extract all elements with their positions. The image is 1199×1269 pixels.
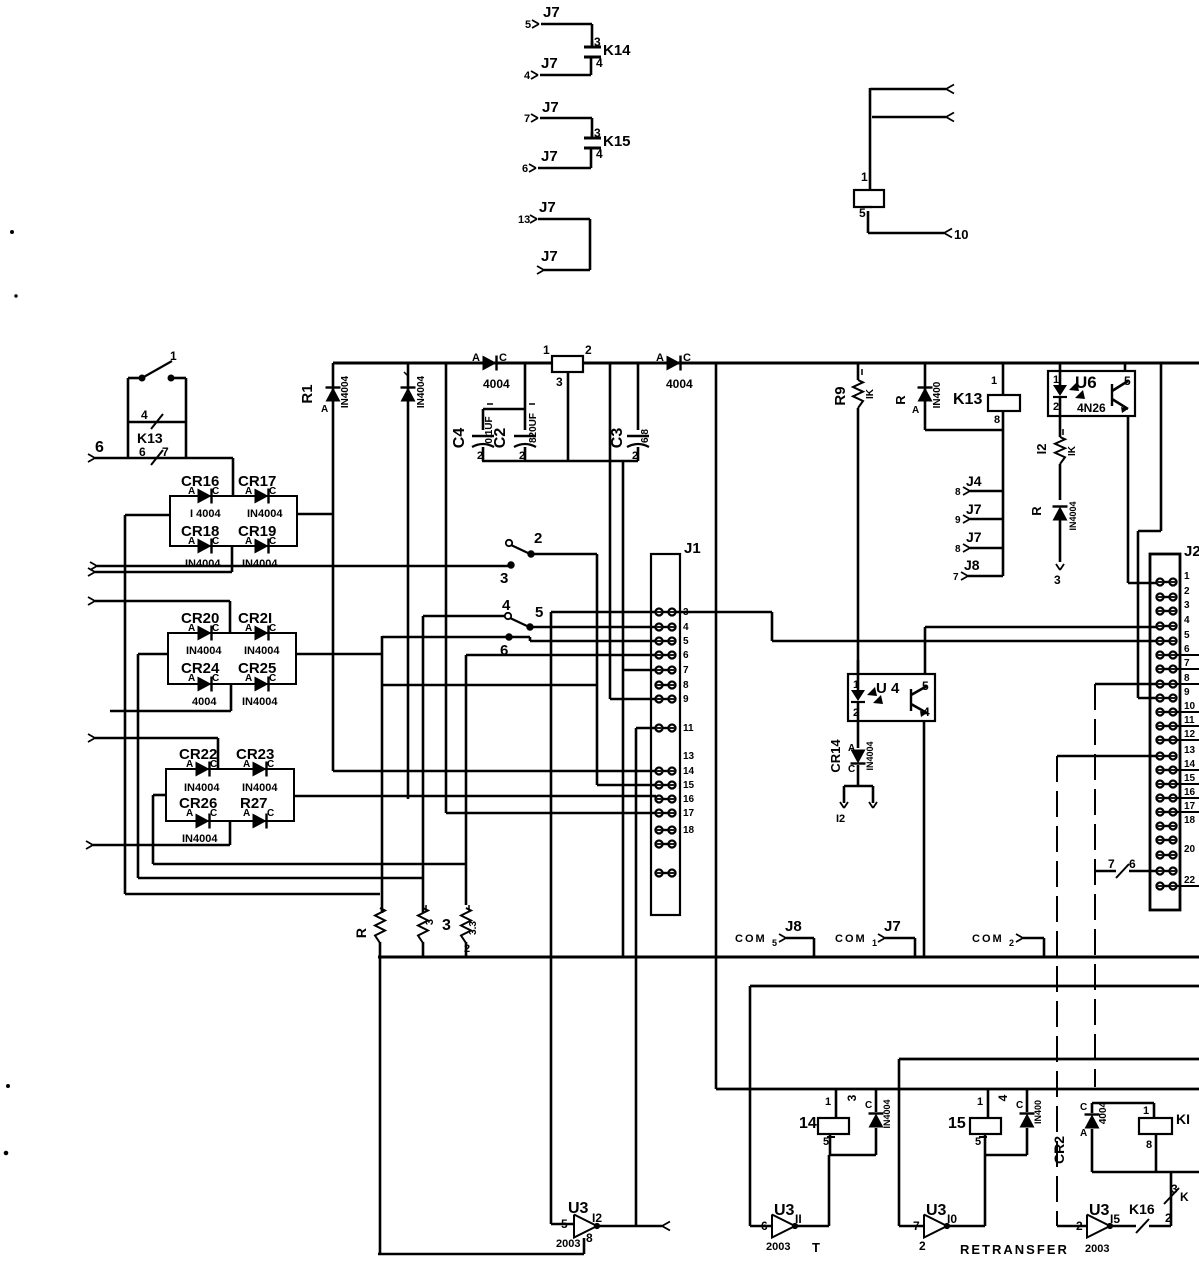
svg-text:K15: K15 [603,133,631,150]
svg-text:18: 18 [683,825,695,836]
svg-text:14: 14 [799,1115,817,1132]
diode CR20 [181,610,222,657]
svg-text:4: 4 [141,408,148,422]
svg-text:R: R [353,928,369,938]
svg-text:7: 7 [683,665,689,676]
svg-text:K13: K13 [953,391,982,408]
svg-text:1: 1 [1143,1105,1149,1117]
wire to J1 pin 4 [533,626,656,629]
node 3 [500,562,514,587]
svg-text:2003: 2003 [766,1241,790,1253]
relay K15 contact pins 3,4 [584,126,631,168]
diode CR22 [179,746,220,794]
pin 3 arrow [1054,564,1064,587]
svg-text:7: 7 [953,572,959,583]
svg-text:A: A [186,808,193,819]
svg-text:C2: C2 [492,428,509,449]
svg-text:J7: J7 [884,918,901,935]
svg-text:9: 9 [683,694,689,705]
svg-text:A: A [243,759,250,770]
svg-text:IN4004: IN4004 [242,696,278,708]
wire (mid output) [296,653,382,656]
svg-text:C: C [865,1100,872,1111]
svg-text:15: 15 [683,780,695,791]
svg-text:CR2I: CR2I [238,610,272,627]
svg-text:2: 2 [585,343,592,357]
svg-text:3: 3 [500,570,508,587]
svg-text:C: C [683,352,691,364]
wire (mid tap left) [125,515,170,894]
svg-text:4004: 4004 [666,377,693,391]
svg-text:1: 1 [825,1096,831,1108]
driver U3 pins 2/15 [1057,1202,1120,1255]
connector J4 pin 8 [955,473,1003,498]
svg-text:3: 3 [556,375,563,389]
svg-text:IN4004: IN4004 [184,782,220,794]
diode CR23 [236,746,278,794]
svg-text:C: C [210,759,217,770]
diode CR26 [179,795,218,845]
diode CR (4004) on bus [472,352,510,391]
wire (long vertical to relay bus) [715,363,718,1089]
svg-text:5: 5 [823,1136,829,1148]
label RETRANSFER [960,1242,1069,1257]
svg-text:IN4004: IN4004 [882,1099,892,1128]
bus 4 (relay supply) [716,1088,1199,1091]
resistor 3 [418,905,451,957]
svg-text:7: 7 [913,1219,920,1233]
svg-text:13: 13 [683,751,695,762]
relay coil (top right) [854,190,884,233]
svg-text:16: 16 [683,794,695,805]
svg-text:J7: J7 [541,55,558,72]
relay coil 15 [948,1089,1027,1155]
svg-text:16: 16 [1184,787,1196,798]
wire [232,458,235,496]
pin arrows [946,85,954,122]
wire switch5 vertical [551,612,656,1224]
svg-text:IN4004: IN4004 [244,645,280,657]
svg-text:K14: K14 [603,42,631,59]
diode R27 [240,795,274,829]
svg-text:6: 6 [500,642,508,659]
svg-text:R: R [1029,506,1044,516]
svg-text:I 4004: I 4004 [190,508,221,520]
relay coil K13 [953,363,1020,576]
svg-text:8: 8 [955,487,961,498]
svg-text:A: A [243,808,250,819]
svg-text:2: 2 [1165,1211,1172,1225]
svg-text:IN4004: IN4004 [340,375,351,408]
svg-text:3: 3 [594,126,601,140]
svg-text:20: 20 [1184,844,1196,855]
wire [88,734,218,769]
svg-text:2: 2 [632,450,638,462]
svg-text:3.3: 3.3 [468,921,479,935]
relay coil K17 [1092,1103,1190,1172]
wire [1092,1171,1199,1174]
connector J7 COM1 [835,918,915,957]
svg-text:J7: J7 [542,99,559,116]
svg-text:IN400: IN400 [1033,1100,1043,1124]
wire [153,863,466,866]
wire to J1 pin 15 [597,685,656,785]
svg-text:4: 4 [596,56,603,70]
connector J7 pin 7 [524,99,559,125]
svg-text:2: 2 [1009,938,1014,948]
connector J7 pin 5 [525,4,560,31]
svg-text:6: 6 [95,439,104,456]
svg-text:18: 18 [1184,815,1196,826]
wire (U6 emitter to J2 pin1) [1128,415,1156,583]
svg-text:A: A [912,405,919,416]
svg-text:2: 2 [919,1239,926,1253]
svg-text:C: C [212,536,219,547]
svg-text:A: A [245,673,252,684]
svg-text:A: A [188,536,195,547]
svg-text:IN4004: IN4004 [185,558,221,570]
svg-text:A: A [245,623,252,634]
svg-text:C: C [269,673,276,684]
connector J7 pin 6 [522,148,558,175]
svg-text:4: 4 [683,622,689,633]
svg-text:KI: KI [1176,1111,1190,1127]
svg-text:J7: J7 [541,148,558,165]
contact 7-6 to J2 pin 21 [1095,857,1156,878]
resistor R [353,908,385,1254]
svg-text:C: C [499,352,507,364]
diode R1 (1N4004) [299,363,351,771]
capacitor C2 820UF [492,404,539,462]
relay K14 contact pins 3,4 [584,35,631,75]
svg-text:IN4004: IN4004 [186,645,222,657]
svg-text:2: 2 [1184,586,1190,597]
connector J8 COM5 [735,918,814,957]
svg-text:IN4004: IN4004 [242,782,278,794]
relay K13 contacts [128,378,186,459]
switch K13 pin 1 [139,349,177,381]
svg-text:A: A [245,486,252,497]
svg-text:6: 6 [761,1219,768,1233]
svg-text:C3: C3 [609,428,626,449]
svg-text:J4: J4 [966,473,982,489]
svg-text:C: C [212,673,219,684]
svg-text:15: 15 [948,1115,966,1132]
wire (dashed) from J2 pin 8 [1095,684,1156,1087]
capacitor C4 0.1UF [451,404,495,462]
svg-text:7: 7 [1184,658,1190,669]
diode CR2 4004 [1051,1101,1109,1172]
svg-text:4N26: 4N26 [1077,401,1106,415]
svg-text:5: 5 [922,679,929,693]
diode CR18 [181,523,221,570]
svg-text:1: 1 [872,938,877,948]
svg-text:3: 3 [424,919,436,925]
diode CR19 [238,523,278,570]
svg-text:5: 5 [1184,630,1190,641]
svg-text:2003: 2003 [556,1238,580,1250]
svg-text:A: A [472,352,480,364]
svg-text:5: 5 [975,1136,981,1148]
svg-text:IN4004: IN4004 [242,558,278,570]
svg-text:3: 3 [1184,600,1190,611]
svg-text:9: 9 [955,515,961,526]
diode CR (4004) on bus 2 [656,352,693,391]
node 6 [500,634,512,659]
svg-text:4004: 4004 [192,696,217,708]
svg-text:3: 3 [1171,1182,1178,1196]
svg-text:IN4004: IN4004 [247,508,283,520]
wire [110,684,231,711]
svg-text:6.8: 6.8 [640,429,651,443]
wire pin6 with contact [88,439,233,465]
power bus (top) [333,362,1199,365]
svg-text:1: 1 [977,1096,983,1108]
svg-text:8: 8 [1146,1139,1152,1151]
svg-text:17: 17 [1184,801,1196,812]
wire J1 pin 11 down [636,728,656,1226]
resistor R9 1K [832,363,876,674]
connector J2 [1150,543,1199,910]
svg-text:4: 4 [1184,615,1190,626]
svg-text:I2: I2 [1034,444,1049,455]
capacitor C3 6.8 [609,363,651,462]
svg-text:U3: U3 [1089,1202,1110,1219]
svg-text:IN4004: IN4004 [865,741,875,770]
svg-text:IN400: IN400 [932,381,943,408]
svg-text:A: A [186,759,193,770]
svg-text:4004: 4004 [483,377,510,391]
wire (U4 pin5 to J2 pin4) [925,627,1156,674]
svg-text:6: 6 [522,163,528,175]
diode (1N4004) #2 [401,363,428,799]
wire [88,546,232,576]
svg-text:J7: J7 [543,4,560,21]
svg-text:J7: J7 [541,248,558,265]
driver U3 pins 5/12 [551,1200,602,1250]
diode CR16 [181,473,221,520]
svg-text:1: 1 [170,349,177,363]
svg-text:C: C [212,623,219,634]
wire (U3 pin8 return) [378,1238,584,1254]
resistor 3.3 [461,905,479,957]
svg-text:C: C [269,536,276,547]
svg-text:3: 3 [594,35,601,49]
svg-text:C: C [267,759,274,770]
diode group CR16-CR19 box [170,496,297,546]
wire [138,877,423,880]
voltage regulator VR1 [543,343,592,461]
wire [381,636,384,913]
svg-text:2: 2 [1053,401,1059,413]
svg-text:A: A [188,623,195,634]
wire [86,821,230,849]
relay contact K16 [1110,1201,1171,1233]
svg-text:5: 5 [772,938,777,948]
diode at relay 15 (1N400) [996,1089,1043,1155]
svg-text:11: 11 [683,723,694,734]
svg-text:C: C [269,623,276,634]
svg-text:3: 3 [845,1094,859,1101]
svg-text:4: 4 [596,147,603,161]
svg-text:IK: IK [1067,445,1078,456]
svg-text:6: 6 [683,650,689,661]
wire (U4 pin4 down) [923,721,926,957]
svg-text:5: 5 [683,636,689,647]
svg-text:J2: J2 [1184,543,1199,560]
wire (mid output to J1 pin16) [294,795,656,798]
diode (1N400) at K13 coil [893,363,943,430]
pin 1 label [861,170,868,184]
svg-text:C: C [848,764,855,775]
svg-text:U3: U3 [568,1200,589,1217]
svg-text:J1: J1 [684,540,701,557]
wire [540,74,591,77]
svg-text:J7: J7 [966,501,982,517]
wire switch4 to resistor chain [423,616,505,913]
wire [795,1155,829,1226]
svg-text:820UF: 820UF [528,413,539,443]
svg-text:J8: J8 [785,918,802,935]
svg-text:12: 12 [1184,729,1196,740]
optocoupler U4 [848,660,935,721]
wire (mid tap left) [138,654,168,878]
diode group CR22-R27 box [166,769,294,821]
bus (COM) [378,956,1199,959]
wire [540,118,592,136]
connector J7 pin 9 [955,501,1003,526]
diode CR24 [181,660,220,708]
svg-text:A: A [656,352,664,364]
wire with arrow [90,562,508,570]
svg-text:C: C [267,808,274,819]
svg-text:2: 2 [1076,1219,1083,1233]
svg-text:13: 13 [518,214,530,226]
svg-text:3: 3 [1054,573,1061,587]
svg-text:8: 8 [586,1231,593,1245]
diode CR21 [238,610,280,657]
svg-text:A: A [245,536,252,547]
svg-text:4: 4 [923,705,930,719]
diode at relay 14 (1N4004) [845,1089,892,1155]
svg-text:2003: 2003 [1085,1243,1109,1255]
wire (dashed) to U3 input [1056,756,1058,1226]
svg-text:R1: R1 [299,384,316,403]
svg-text:K: K [1180,1190,1189,1204]
wire [88,597,230,633]
wire [538,219,590,270]
svg-text:1: 1 [991,375,997,387]
wire [534,554,597,685]
svg-text:17: 17 [683,808,695,819]
diode CR25 [238,660,278,708]
svg-text:J7: J7 [539,199,556,216]
svg-text:U3: U3 [774,1202,795,1219]
resistor R12 1K [1034,416,1078,464]
diode CR14 1N4004 [828,721,875,786]
svg-text:COM: COM [835,933,867,945]
wire [870,88,946,190]
wire to pin 10 [868,227,968,242]
wire [125,893,380,896]
svg-text:A: A [188,673,195,684]
driver U3 pins 7/10 [899,1202,957,1253]
svg-text:3: 3 [442,917,451,934]
svg-text:J7: J7 [966,529,982,545]
svg-text:6: 6 [1129,857,1136,871]
svg-text:9: 9 [1184,687,1190,698]
svg-text:IK: IK [865,388,876,399]
svg-text:5: 5 [561,1217,568,1231]
svg-text:J8: J8 [964,557,980,573]
wire to J2 pin 13 [1057,755,1156,758]
contact K17 pins 3,2 [1164,1172,1189,1226]
svg-text:8: 8 [994,414,1000,426]
svg-text:8: 8 [1184,673,1190,684]
svg-text:C: C [269,486,276,497]
svg-text:C4: C4 [451,428,468,449]
svg-text:RETRANSFER: RETRANSFER [960,1242,1069,1257]
svg-text:5: 5 [535,604,543,621]
svg-text:C: C [212,486,219,497]
wire [610,363,656,699]
svg-text:10: 10 [1184,701,1196,712]
svg-text:7: 7 [524,113,530,125]
svg-text:C: C [210,808,217,819]
terminal fork pin 12 [836,786,877,825]
svg-text:13: 13 [1184,745,1196,756]
connector J7 pin 4 [524,55,558,82]
svg-text:COM: COM [735,933,767,945]
svg-text:CR2: CR2 [1051,1136,1067,1164]
wire [446,363,656,813]
svg-text:A: A [321,404,328,415]
svg-text:22: 22 [1184,875,1196,886]
svg-text:14: 14 [1184,759,1196,770]
svg-text:6: 6 [1184,644,1190,655]
svg-text:U 4: U 4 [876,680,900,697]
svg-text:I2: I2 [592,1211,602,1225]
svg-text:C: C [1016,1100,1023,1111]
driver U3 pins 6/11 [750,1202,820,1255]
switch contact 2 [506,530,543,557]
svg-text:5: 5 [525,19,531,31]
wire (cap bottom rail) [482,460,638,463]
svg-text:4: 4 [502,597,511,614]
connector J7 (lower) [537,248,558,274]
wire [483,363,525,430]
bus 3 [899,1059,1199,1226]
svg-text:IN4004: IN4004 [1068,501,1078,530]
svg-text:CR14: CR14 [828,739,843,773]
wire [925,429,1003,432]
svg-text:K16: K16 [1129,1201,1155,1217]
svg-text:7: 7 [1108,857,1115,871]
relay coil 14 [799,1089,876,1155]
wire [947,1155,985,1226]
wire (mid output to R1) [297,513,333,516]
wire [382,637,656,641]
svg-text:5: 5 [859,206,866,220]
scan marks [4,231,17,1155]
switch contact 4-5 [502,597,543,630]
svg-text:8: 8 [683,680,689,691]
svg-text:I2: I2 [836,813,845,825]
connector J7 pin 8 [955,529,1003,555]
wire [1138,363,1161,698]
svg-text:1: 1 [1184,571,1190,582]
svg-text:1: 1 [543,343,550,357]
